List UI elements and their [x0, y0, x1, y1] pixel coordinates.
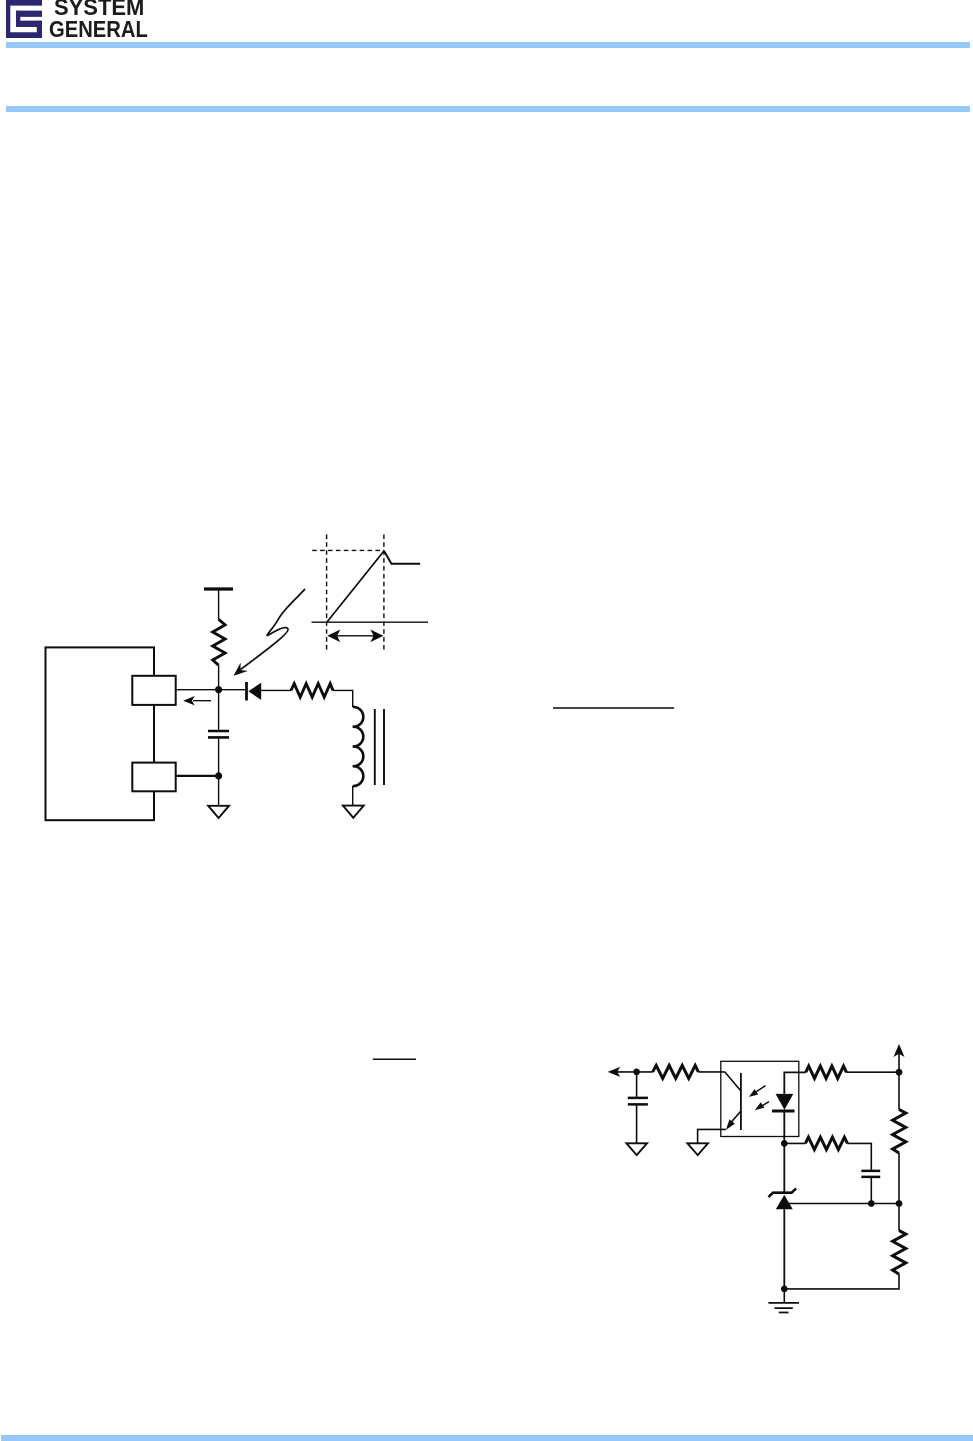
wire C3 to node G [870, 1177, 872, 1204]
zener Z1 wire from node D [783, 1143, 785, 1192]
ground G3 (open triangle) [626, 1143, 647, 1155]
wire node C to C2 [636, 1072, 638, 1097]
wire node F to R7 [898, 1204, 900, 1231]
earth ground G5 bar 2 [775, 1307, 793, 1309]
waveform dashed vline left [326, 534, 328, 651]
header rule upper [6, 42, 970, 48]
zener Z1 cathode bar with hooks [769, 1188, 797, 1197]
optocoupler U1 body [721, 1061, 799, 1136]
node C junction dot [633, 1069, 640, 1076]
resistor R7 (lower divider, vertical) [893, 1231, 906, 1275]
ground G1 (open triangle) [208, 806, 229, 818]
phototransistor base bar [740, 1073, 742, 1130]
wire C1 to node B [218, 739, 220, 806]
resistor R3 (filter, horizontal) [653, 1065, 699, 1078]
wire GND pin to node B [176, 775, 219, 777]
resistor R5 (upper divider, vertical) [893, 1109, 906, 1153]
capacitor C3 top plate [861, 1170, 880, 1173]
GND pin box [132, 763, 175, 792]
node G junction dot [868, 1200, 875, 1207]
light arrow 2 [758, 1102, 770, 1109]
light arrow 1 [753, 1086, 766, 1094]
wire R3 to optocoupler [698, 1071, 725, 1073]
company name text line 2 [49, 18, 148, 41]
diode D1 body (filled, pointing left) [248, 683, 261, 700]
capacitor C1 top plate [208, 730, 229, 733]
current arrowhead [183, 696, 195, 705]
wire node A to VDD pin [176, 689, 246, 691]
wire R2 to transformer [333, 690, 353, 707]
wire node H to earth ground [783, 1289, 785, 1303]
VDD T-bar [204, 587, 233, 590]
resistor R4 (bias, top right horizontal) [806, 1066, 847, 1078]
node E junction dot [896, 1069, 903, 1076]
phototransistor collector lead [725, 1072, 741, 1091]
waveform time axis [312, 621, 429, 623]
LED cathode bar [772, 1110, 795, 1113]
wire winding to ground G2 [352, 786, 354, 806]
waveform period double arrow [327, 630, 383, 643]
LED body (filled, pointing down) [776, 1094, 794, 1110]
wire node A to C1 [218, 690, 220, 730]
annotation squiggle arrow [241, 589, 306, 670]
phototransistor emitter lead [728, 1111, 741, 1126]
emitter arrowhead [726, 1119, 735, 1130]
node F junction dot [896, 1200, 903, 1207]
wire node D to R6 [784, 1142, 805, 1144]
waveform falling edge and flat top [384, 551, 420, 564]
waveform sawtooth ramp [327, 551, 384, 622]
FB output arrow (left) [616, 1071, 637, 1073]
resistor R2 (horizontal) [291, 684, 333, 698]
wire T-bar to resistor R1 [218, 589, 220, 619]
wire R6 to C3 [847, 1143, 871, 1169]
wire R5 to node F [898, 1153, 900, 1204]
ground G2 (open triangle) [343, 806, 364, 818]
wire R7 to node H [784, 1274, 899, 1289]
wire R4 to VCC rail [846, 1071, 899, 1073]
capacitor C2 top plate [628, 1097, 648, 1100]
wire C2 to ground G3 [636, 1104, 638, 1143]
VDD pin box [132, 676, 175, 705]
company logo mark (navy square spiral) [0, 0, 60, 50]
node H junction dot [781, 1286, 788, 1293]
diode D1 cathode bar [245, 682, 248, 701]
node A junction dot [215, 686, 222, 693]
ground G4 (open triangle) [687, 1143, 708, 1155]
wire R1 to node A [218, 665, 220, 690]
LED cathode wire to node D [783, 1111, 785, 1143]
earth ground G5 bar 3 [779, 1312, 789, 1314]
company name text line 1 [54, 0, 144, 19]
footer rule [1, 1435, 973, 1441]
current direction arrow into pin [193, 700, 211, 702]
VCC rail arrow up [898, 1054, 900, 1072]
small text underline [373, 1058, 416, 1060]
node D junction dot [781, 1140, 788, 1147]
LED anode wire (inside opto) [784, 1072, 806, 1094]
transformer core line left [374, 709, 376, 785]
waveform dashed hline top [312, 549, 384, 551]
wire Z1 to node H [783, 1209, 785, 1289]
header rule lower [6, 106, 970, 112]
wire node E to R5 [898, 1072, 900, 1109]
capacitor C1 bottom plate [208, 736, 229, 739]
waveform dashed vline right [383, 534, 385, 651]
text underline (formula) [553, 707, 674, 709]
resistor R6 (compensation, horizontal) [805, 1137, 847, 1149]
reference node wire (zener to rail) [784, 1203, 899, 1205]
zener Z1 body (filled, pointing up) [776, 1195, 793, 1209]
capacitor C3 bottom plate [861, 1176, 880, 1179]
controller IC outline [46, 647, 155, 820]
wire emitter to ground G4 [698, 1129, 726, 1143]
transformer primary winding [353, 707, 364, 786]
capacitor C2 bottom plate [628, 1103, 648, 1106]
transformer core line right [383, 709, 385, 785]
resistor R1 (startup, vertical) [213, 619, 225, 665]
wire node C to R3 [637, 1071, 653, 1073]
earth ground G5 bar 1 [768, 1302, 799, 1304]
node B junction dot [215, 772, 222, 779]
wire D1 to R2 [261, 689, 291, 691]
